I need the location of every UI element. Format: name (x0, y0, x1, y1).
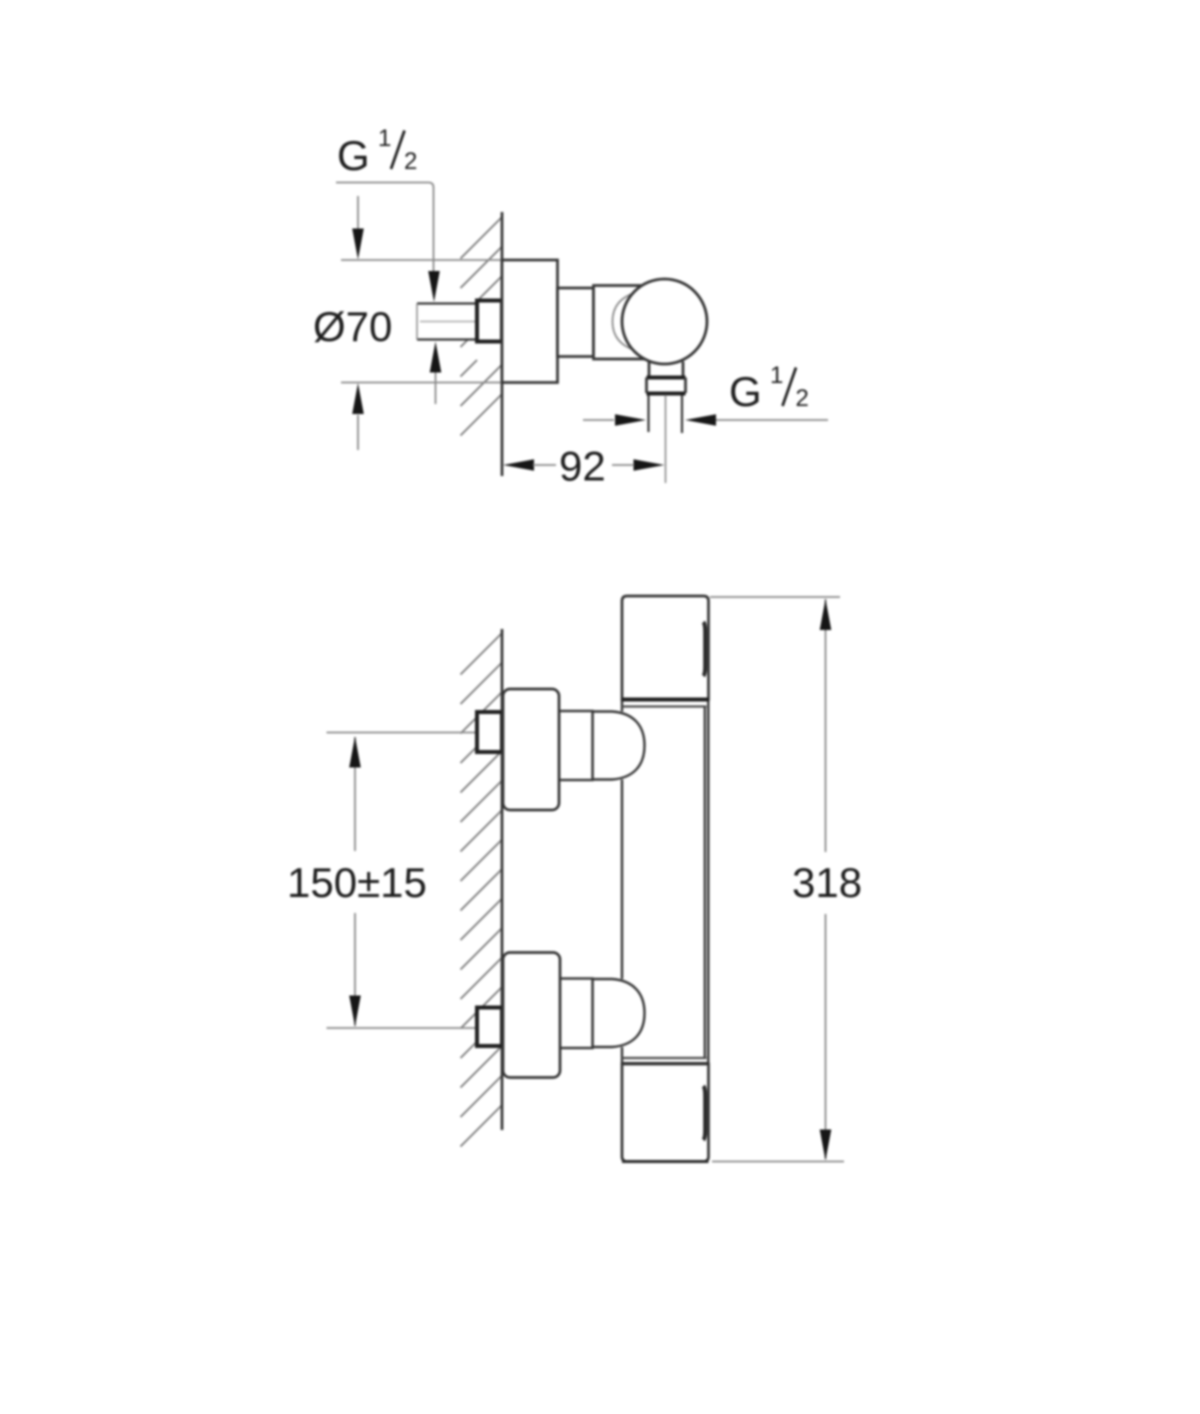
svg-text:1: 1 (378, 125, 391, 152)
svg-text:318: 318 (792, 859, 862, 906)
svg-text:2: 2 (404, 148, 417, 175)
svg-text:G: G (337, 132, 370, 179)
svg-text:92: 92 (559, 443, 606, 490)
svg-text:2: 2 (796, 385, 809, 412)
svg-text:1: 1 (770, 362, 783, 389)
svg-text:150±15: 150±15 (287, 859, 427, 906)
svg-text:Ø70: Ø70 (313, 303, 392, 350)
svg-text:G: G (729, 368, 762, 415)
